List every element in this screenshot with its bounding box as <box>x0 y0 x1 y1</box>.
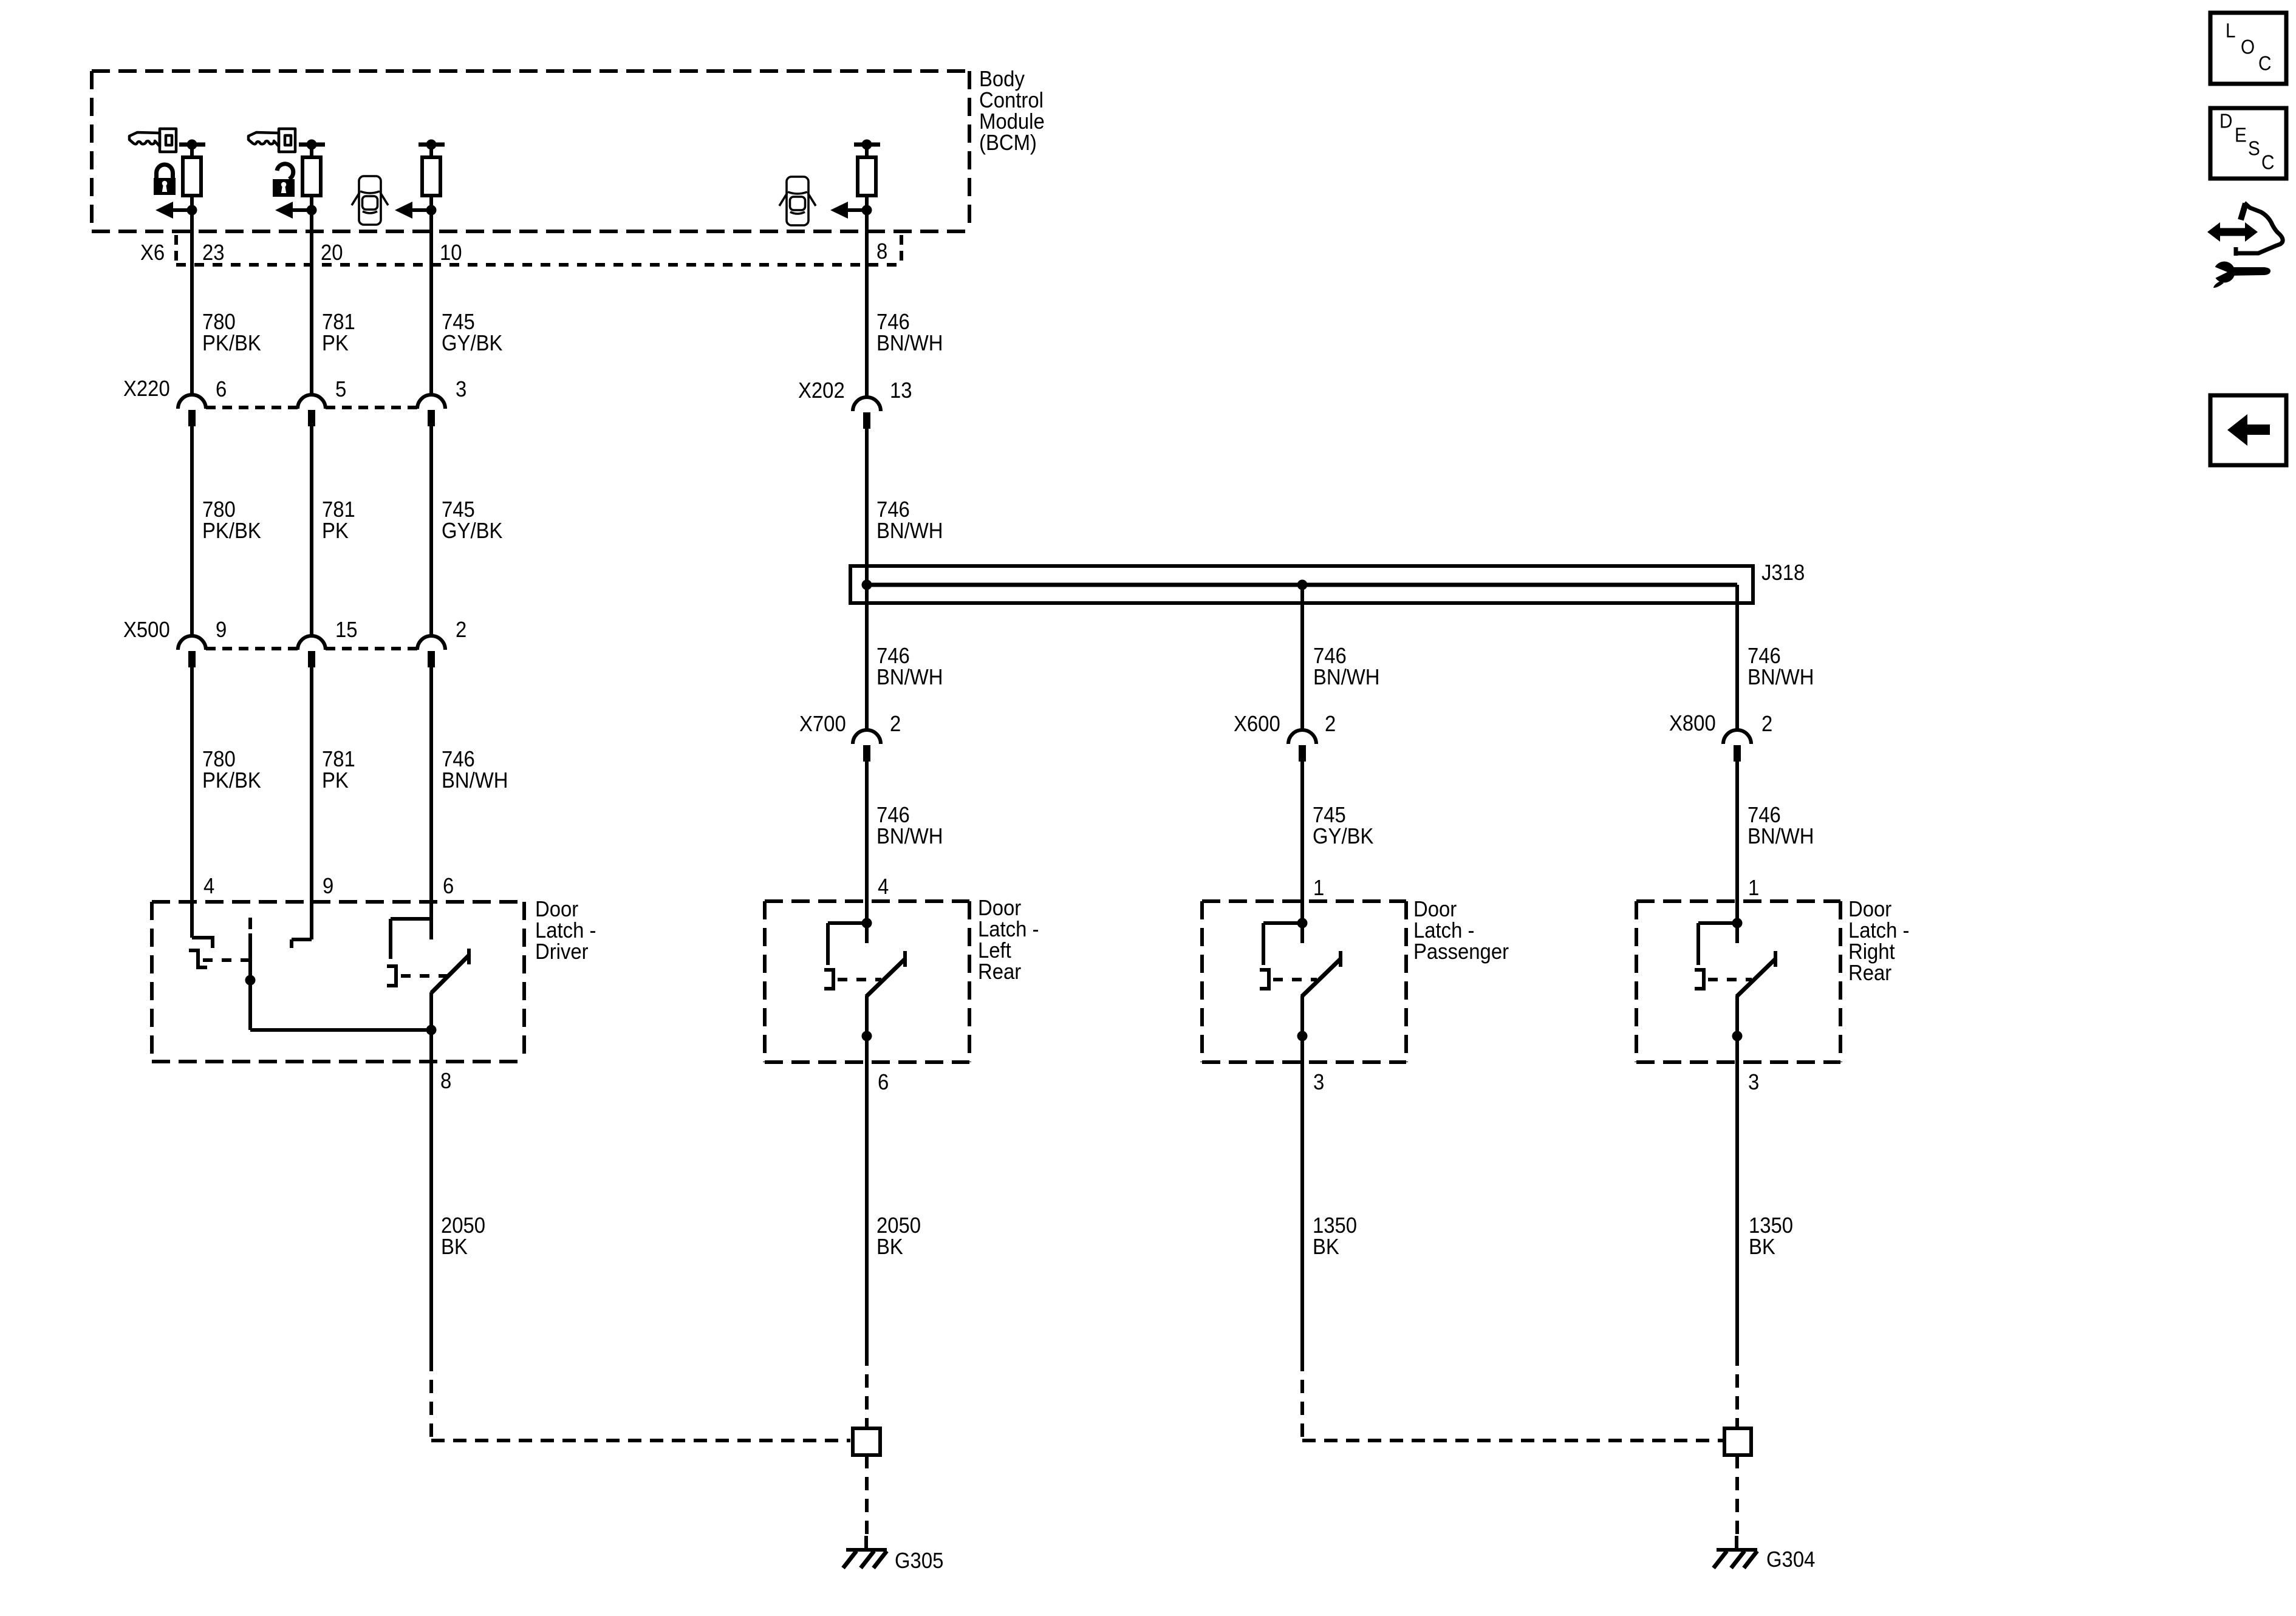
svg-text:Passenger: Passenger <box>1413 940 1509 964</box>
svg-text:G304: G304 <box>1766 1548 1815 1572</box>
svg-text:13: 13 <box>890 379 912 403</box>
svg-text:2050: 2050 <box>876 1214 921 1238</box>
svg-text:BK: BK <box>1313 1235 1339 1260</box>
svg-text:8: 8 <box>876 240 887 264</box>
svg-text:4: 4 <box>203 874 214 899</box>
svg-text:BK: BK <box>1749 1235 1775 1260</box>
svg-text:Door: Door <box>1413 898 1457 922</box>
svg-text:Door: Door <box>978 896 1021 921</box>
svg-text:BN/WH: BN/WH <box>1313 666 1379 690</box>
svg-text:20: 20 <box>321 241 343 265</box>
svg-text:Driver: Driver <box>535 940 589 964</box>
svg-text:BN/WH: BN/WH <box>876 519 943 544</box>
svg-text:X600: X600 <box>1234 712 1280 737</box>
svg-text:780: 780 <box>202 498 236 522</box>
svg-text:C: C <box>2258 52 2271 75</box>
svg-text:Body: Body <box>979 67 1025 92</box>
svg-text:Left: Left <box>978 939 1011 963</box>
svg-text:L: L <box>2226 19 2236 42</box>
svg-text:X6: X6 <box>140 241 165 265</box>
svg-text:9: 9 <box>323 874 333 899</box>
svg-text:3: 3 <box>1313 1071 1324 1095</box>
svg-text:(BCM): (BCM) <box>979 131 1037 155</box>
svg-text:G305: G305 <box>895 1549 943 1573</box>
svg-text:1350: 1350 <box>1749 1214 1793 1238</box>
svg-text:15: 15 <box>335 618 358 643</box>
svg-text:BN/WH: BN/WH <box>876 825 943 849</box>
svg-text:X700: X700 <box>799 712 846 737</box>
svg-text:746: 746 <box>876 310 910 335</box>
svg-text:Door: Door <box>535 898 578 922</box>
svg-text:745: 745 <box>442 498 475 522</box>
svg-text:C: C <box>2261 151 2274 174</box>
svg-text:Latch -: Latch - <box>535 919 596 943</box>
svg-text:X500: X500 <box>123 618 170 643</box>
svg-text:781: 781 <box>322 498 355 522</box>
svg-text:S: S <box>2248 137 2260 160</box>
svg-text:BN/WH: BN/WH <box>1748 666 1814 690</box>
svg-text:2: 2 <box>456 618 466 643</box>
svg-text:PK/BK: PK/BK <box>202 769 261 793</box>
svg-text:GY/BK: GY/BK <box>442 519 502 544</box>
svg-text:745: 745 <box>442 310 475 335</box>
svg-text:BK: BK <box>441 1235 468 1260</box>
svg-text:X800: X800 <box>1669 712 1716 736</box>
svg-text:Latch -: Latch - <box>978 918 1039 942</box>
svg-text:X202: X202 <box>798 379 845 403</box>
svg-text:9: 9 <box>216 618 227 643</box>
svg-text:746: 746 <box>876 803 910 828</box>
svg-text:J318: J318 <box>1761 561 1805 585</box>
svg-text:2050: 2050 <box>441 1214 485 1238</box>
svg-text:PK/BK: PK/BK <box>202 519 261 544</box>
svg-text:Rear: Rear <box>1848 961 1891 986</box>
svg-text:5: 5 <box>335 378 346 402</box>
svg-text:1: 1 <box>1748 876 1759 901</box>
svg-text:2: 2 <box>1761 712 1772 737</box>
svg-text:X220: X220 <box>123 377 170 401</box>
svg-text:746: 746 <box>876 644 910 669</box>
svg-text:BN/WH: BN/WH <box>876 666 943 690</box>
svg-text:4: 4 <box>878 875 889 899</box>
svg-text:Control: Control <box>979 89 1044 113</box>
svg-text:3: 3 <box>456 378 466 402</box>
svg-text:BN/WH: BN/WH <box>876 332 943 356</box>
svg-text:1: 1 <box>1313 876 1324 901</box>
svg-text:745: 745 <box>1313 803 1346 828</box>
svg-text:6: 6 <box>216 378 227 402</box>
svg-text:GY/BK: GY/BK <box>442 332 502 356</box>
svg-text:Rear: Rear <box>978 960 1021 984</box>
svg-text:746: 746 <box>1748 803 1781 828</box>
svg-text:1350: 1350 <box>1313 1214 1357 1238</box>
svg-text:780: 780 <box>202 748 236 772</box>
svg-text:BK: BK <box>876 1235 903 1260</box>
svg-text:Latch -: Latch - <box>1413 919 1474 943</box>
svg-text:GY/BK: GY/BK <box>1313 825 1373 849</box>
svg-text:E: E <box>2235 124 2247 146</box>
svg-text:746: 746 <box>1748 644 1781 669</box>
svg-text:Right: Right <box>1848 940 1895 964</box>
svg-text:781: 781 <box>322 310 355 335</box>
svg-text:6: 6 <box>443 874 454 899</box>
svg-text:PK/BK: PK/BK <box>202 332 261 356</box>
svg-text:8: 8 <box>440 1069 451 1094</box>
svg-text:Latch -: Latch - <box>1848 919 1909 943</box>
svg-text:BN/WH: BN/WH <box>1748 825 1814 849</box>
svg-text:746: 746 <box>442 748 475 772</box>
svg-text:BN/WH: BN/WH <box>442 769 508 793</box>
svg-text:780: 780 <box>202 310 236 335</box>
svg-text:2: 2 <box>1325 712 1336 737</box>
svg-text:10: 10 <box>440 241 462 265</box>
svg-text:O: O <box>2241 36 2255 58</box>
svg-text:746: 746 <box>876 498 910 522</box>
svg-text:PK: PK <box>322 769 349 793</box>
svg-text:PK: PK <box>322 332 349 356</box>
svg-text:D: D <box>2219 110 2232 132</box>
svg-text:Module: Module <box>979 110 1045 134</box>
svg-text:Door: Door <box>1848 898 1891 922</box>
svg-text:781: 781 <box>322 748 355 772</box>
svg-text:3: 3 <box>1748 1071 1759 1095</box>
svg-text:746: 746 <box>1313 644 1347 669</box>
svg-text:2: 2 <box>890 712 901 737</box>
svg-text:23: 23 <box>202 241 225 265</box>
svg-text:PK: PK <box>322 519 349 544</box>
svg-text:6: 6 <box>878 1071 889 1095</box>
